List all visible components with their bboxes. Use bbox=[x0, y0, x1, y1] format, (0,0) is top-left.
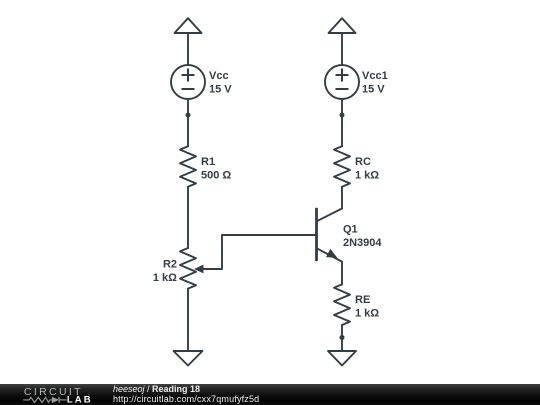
svg-text:LAB: LAB bbox=[67, 394, 93, 405]
wire Vcc1 source to RC bbox=[341, 99, 343, 146]
ground left bbox=[174, 351, 203, 366]
credit text bbox=[113, 385, 259, 404]
svg-text:Q1: Q1 bbox=[343, 224, 358, 236]
potentiometer R2 bbox=[180, 248, 196, 289]
node dot right rail bbox=[340, 113, 345, 118]
transistor Q1 base bar bbox=[315, 209, 318, 260]
ground right bbox=[328, 351, 356, 366]
wiper arrow of R2 bbox=[194, 265, 204, 274]
transistor Q1 emitter arrow bbox=[326, 249, 337, 258]
footer bar bbox=[0, 384, 540, 405]
svg-text:1 kΩ: 1 kΩ bbox=[153, 272, 177, 284]
node dot above right ground bbox=[340, 335, 345, 340]
wire R1 to R2 bbox=[187, 187, 189, 248]
logo resistor-diode squiggle bbox=[23, 397, 66, 403]
svg-text:R2: R2 bbox=[163, 259, 177, 271]
svg-text:1 kΩ: 1 kΩ bbox=[355, 170, 379, 182]
power flag Vcc1 bbox=[329, 18, 356, 65]
resistor RE bbox=[334, 284, 350, 325]
transistor Q1 collector lead bbox=[317, 209, 343, 222]
resistor R1 bbox=[180, 146, 196, 187]
svg-text:15 V: 15 V bbox=[209, 84, 232, 96]
wire Vcc source to R1 bbox=[187, 99, 189, 146]
label Vcc 15 V bbox=[209, 70, 232, 96]
label R1 500 ohm bbox=[201, 156, 231, 182]
label RC 1 kohm bbox=[355, 156, 379, 182]
wire R2 wiper to Q1 base bbox=[203, 235, 317, 269]
svg-text:Vcc: Vcc bbox=[209, 70, 229, 82]
svg-text:R1: R1 bbox=[201, 156, 215, 168]
wire R2 to ground bbox=[187, 289, 189, 351]
voltage source V1 (Vcc) bbox=[171, 65, 205, 99]
svg-text:1 kΩ: 1 kΩ bbox=[355, 308, 379, 320]
svg-text:500 Ω: 500 Ω bbox=[201, 170, 231, 182]
svg-text:RC: RC bbox=[355, 156, 371, 168]
label Vcc1 15 V bbox=[362, 70, 388, 96]
wire RC to collector bbox=[341, 187, 343, 209]
svg-text:Vcc1: Vcc1 bbox=[362, 70, 388, 82]
power flag Vcc bbox=[175, 18, 202, 65]
label R2 1 kohm bbox=[153, 259, 177, 285]
svg-text:15 V: 15 V bbox=[362, 84, 385, 96]
resistor RC bbox=[334, 146, 350, 187]
node dot left rail bbox=[186, 113, 191, 118]
wire RE to ground bbox=[341, 325, 343, 351]
label Q1 2N3904 bbox=[343, 224, 382, 250]
wire emitter to RE bbox=[341, 262, 343, 285]
label RE 1 kohm bbox=[355, 294, 379, 320]
svg-text:2N3904: 2N3904 bbox=[343, 237, 382, 249]
svg-text:RE: RE bbox=[355, 294, 370, 306]
CircuitLab logo bbox=[13, 384, 113, 405]
transistor Q1 emitter lead bbox=[317, 248, 343, 261]
voltage source V2 (Vcc1) bbox=[325, 65, 359, 99]
logo diode triangle bbox=[52, 397, 59, 403]
